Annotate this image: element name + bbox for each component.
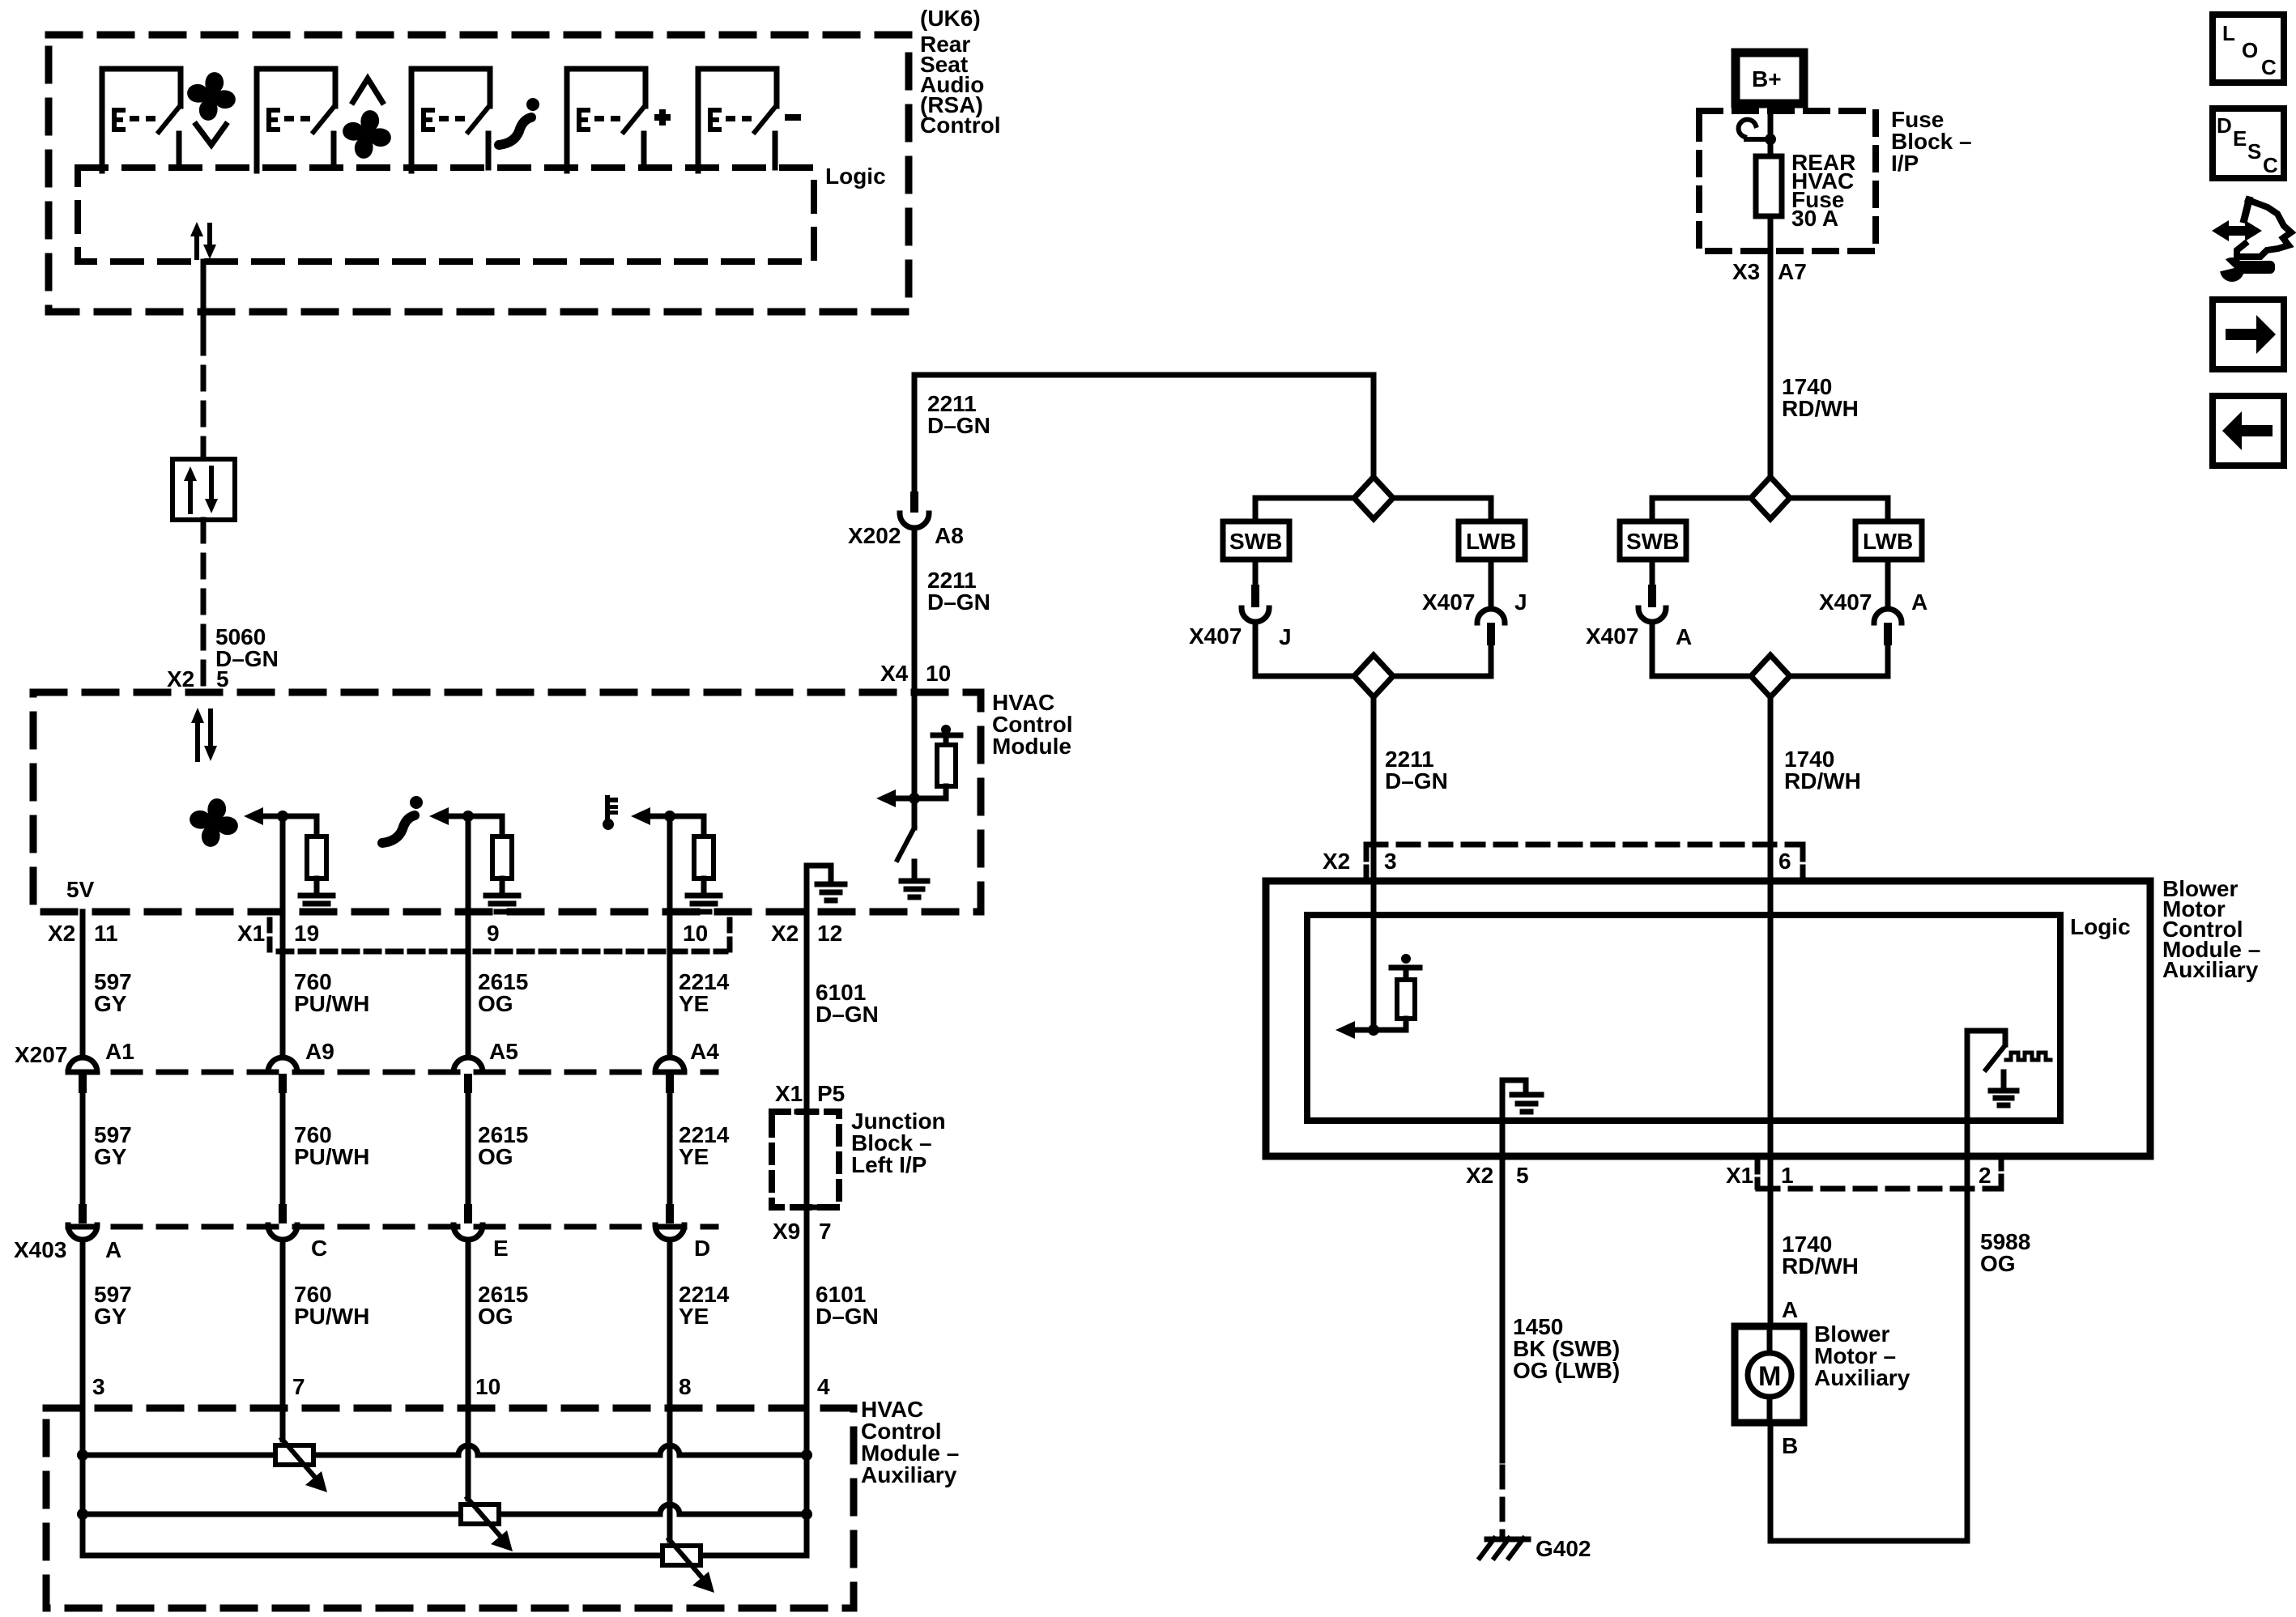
svg-text:B+: B+ — [1752, 66, 1782, 91]
X407 J labels (LWB 2211) — [1422, 589, 1527, 615]
svg-text:8: 8 — [679, 1374, 692, 1399]
junction block crossbar bottom — [797, 1205, 816, 1211]
connector X2 pin 5 — [167, 666, 229, 691]
svg-text:PU/WH: PU/WH — [294, 1144, 369, 1169]
wire labels 2214 YE set 1 — [679, 969, 730, 1016]
Logic dashed box inside RSA — [78, 168, 814, 262]
svg-text:C: C — [2261, 55, 2277, 79]
fan icon high-speed with up chevron — [351, 79, 384, 104]
logic ground (blower) — [1502, 1080, 1541, 1156]
svg-text:PU/WH: PU/WH — [294, 1304, 369, 1329]
svg-text:E: E — [493, 1236, 509, 1261]
resistor branch R-temp — [631, 807, 720, 912]
X407 A labels (LWB 1740) — [1819, 589, 1928, 615]
arrow to logic (blower) — [1355, 1028, 1374, 1033]
svg-text:10: 10 — [683, 921, 708, 946]
wire 2211 into logic — [1371, 881, 1377, 1030]
svg-text:30 A: 30 A — [1791, 206, 1838, 231]
wire labels 597 GY set 3 — [94, 1282, 132, 1329]
svg-text:L: L — [2222, 21, 2235, 45]
wire 6101 D-GN below pin X2-12 — [804, 912, 810, 1112]
label 1450 BK/OG — [1513, 1314, 1620, 1383]
X407 terminal A (LWB 1740) — [1874, 560, 1902, 645]
fuse clip hook — [1739, 120, 1776, 145]
junction dots bus line 1 — [77, 1449, 88, 1461]
svg-text:RD/WH: RD/WH — [1782, 1253, 1859, 1279]
svg-text:Left I/P: Left I/P — [851, 1152, 926, 1177]
wire labels 760 PU/WH set 3 — [294, 1282, 369, 1329]
svg-text:Module: Module — [992, 734, 1071, 759]
svg-text:PU/WH: PU/WH — [294, 991, 369, 1016]
wire 760 PU/WH from fan branch — [280, 816, 286, 1057]
X2-5 pin labels — [1466, 1163, 1529, 1188]
sidebar LOC button — [2213, 15, 2284, 83]
REAR HVAC Fuse 30A element — [1756, 156, 1782, 216]
wire 2211 inside HVAC module — [912, 692, 918, 828]
connector bracket after pin 10 — [727, 920, 733, 957]
seat icon (HVAC) — [382, 796, 423, 843]
svg-text:4: 4 — [817, 1374, 830, 1399]
wire labels 760 PU/WH set 2 — [294, 1122, 369, 1169]
svg-text:X2: X2 — [48, 921, 75, 946]
plus sign — [654, 109, 671, 126]
svg-text:D–GN: D–GN — [816, 1304, 879, 1329]
junction dots bus line 2 — [77, 1508, 88, 1520]
minus sign — [785, 114, 801, 121]
wire 2211 D-GN lower vertical — [912, 528, 918, 692]
bracket pin 2 — [1999, 1158, 2004, 1184]
LWB option box (2211) — [1459, 521, 1525, 560]
svg-text:A8: A8 — [935, 523, 964, 548]
X407 terminal A (SWB 1740) — [1638, 560, 1666, 622]
SWB branch lower wire (1740) — [1652, 622, 1751, 676]
svg-text:X9: X9 — [773, 1219, 800, 1244]
wire 2615 segment 2 — [466, 1093, 471, 1204]
X1 pin labels 1 and 2 — [1726, 1163, 1991, 1188]
wire 1450 solid segment — [1500, 1156, 1506, 1461]
wire 2211 upper vertical — [912, 375, 918, 491]
svg-text:7: 7 — [819, 1219, 832, 1244]
svg-text:P5: P5 — [817, 1081, 845, 1106]
svg-text:OG (LWB): OG (LWB) — [1513, 1358, 1620, 1383]
label 2211 D-GN lower — [927, 568, 990, 615]
label 2211 D-GN upper — [927, 391, 990, 438]
wire 2615 segment 3 — [466, 1240, 471, 1499]
svg-text:D–GN: D–GN — [816, 1002, 879, 1027]
resistor branch R-seat — [429, 807, 518, 912]
wire 1740 to motor — [1768, 1156, 1774, 1354]
bus line 1 with hops — [83, 1445, 807, 1455]
svg-text:12: 12 — [817, 921, 842, 946]
svg-text:GY: GY — [94, 1304, 127, 1329]
wire labels 597 GY set 2 — [94, 1122, 132, 1169]
svg-text:2: 2 — [1979, 1163, 1991, 1188]
junction dot on 2211 — [909, 793, 920, 804]
pullup resistor on 2211 — [914, 725, 961, 798]
resistor branch R-fan — [244, 807, 333, 912]
svg-text:X207: X207 — [15, 1042, 67, 1067]
svg-text:LWB: LWB — [1466, 529, 1516, 554]
RSA control labels — [920, 6, 1001, 138]
junction dot (blower logic) — [1368, 1024, 1379, 1036]
switch blade on 2211 — [897, 828, 914, 860]
X407 A labels (SWB 1740) — [1586, 623, 1692, 649]
X403 label — [14, 1236, 710, 1262]
svg-text:Auxiliary: Auxiliary — [1814, 1365, 1910, 1390]
thermometer icon — [603, 798, 618, 830]
svg-text:X407: X407 — [1586, 623, 1638, 649]
svg-text:D–GN: D–GN — [927, 413, 990, 438]
svg-text:3: 3 — [92, 1374, 105, 1399]
splice diamond D1 (1740) — [1751, 477, 1790, 519]
junction block X1-P5 labels — [775, 1081, 845, 1106]
svg-text:GY: GY — [94, 1144, 127, 1169]
X403 terminal A — [68, 1204, 97, 1240]
label 5060 D-GN — [215, 624, 279, 671]
LWB branch wire (2211) — [1393, 498, 1491, 521]
aux module pin labels 3 7 10 8 4 — [92, 1374, 830, 1399]
wire fuse to X3 — [1768, 216, 1774, 477]
svg-text:LWB: LWB — [1863, 529, 1913, 554]
svg-text:I/P: I/P — [1891, 151, 1919, 176]
svg-text:M: M — [1758, 1361, 1781, 1392]
wire 1740 RD/WH to blower module — [1768, 697, 1774, 881]
up-down arrow box (serial data symbol) — [173, 459, 235, 520]
connector X207 dashed line — [68, 1070, 716, 1075]
svg-text:Logic: Logic — [2070, 914, 2131, 939]
wire 597 GY pin X2-11 — [80, 912, 86, 1057]
svg-text:J: J — [1279, 624, 1292, 649]
svg-text:A: A — [1676, 624, 1692, 649]
ground hook to pin X2-12 — [807, 866, 845, 912]
svg-text:1: 1 — [1781, 1163, 1794, 1188]
dashed data wire below RSA — [201, 332, 207, 459]
wire from Logic to RSA edge — [201, 262, 207, 332]
svg-text:X2: X2 — [771, 921, 799, 946]
SWB option box (2211) — [1223, 521, 1289, 560]
Fuse Block labels — [1891, 107, 1972, 176]
svg-text:Auxiliary: Auxiliary — [2162, 957, 2259, 982]
wire labels 6101 D-GN set 3 — [816, 1282, 879, 1329]
wire labels 6101 D-GN set 1 — [816, 980, 879, 1027]
wire 2211 to splice diamond — [1371, 375, 1377, 477]
wire labels 2615 OG set 1 — [478, 969, 528, 1016]
svg-text:Control: Control — [920, 113, 1001, 138]
svg-text:5: 5 — [1516, 1163, 1529, 1188]
PWM switch ground — [1991, 1072, 2017, 1105]
connector bracket X1 — [267, 920, 273, 957]
Junction Block - Left I/P dashed box — [772, 1112, 839, 1207]
svg-text:OG: OG — [478, 1144, 513, 1169]
splice diamond D1 (2211) — [1354, 477, 1393, 519]
svg-text:YE: YE — [679, 1144, 709, 1169]
svg-text:B: B — [1782, 1433, 1798, 1458]
up-down arrows inside HVAC module — [191, 708, 217, 761]
svg-text:X1: X1 — [775, 1081, 803, 1106]
pullup resistor (blower logic) — [1374, 954, 1420, 1030]
svg-text:O: O — [2242, 38, 2258, 62]
wire 1450 dashed segment — [1500, 1467, 1506, 1537]
SWB branch wire (2211) — [1255, 498, 1354, 521]
svg-text:Auxiliary: Auxiliary — [861, 1462, 957, 1487]
fan icon low-speed with down chevron — [187, 72, 236, 121]
connector X2 row dashed tie (pins 3 and 6) — [1366, 842, 1803, 848]
svg-text:OG: OG — [1980, 1251, 2016, 1276]
wire labels 2214 YE set 3 — [679, 1282, 730, 1329]
sidebar next button — [2213, 300, 2284, 369]
X2 3 6 labels — [1323, 849, 1791, 874]
svg-text:D–GN: D–GN — [1385, 768, 1448, 794]
X407 terminal J (LWB 2211) — [1477, 560, 1505, 645]
wire labels 760 PU/WH set 1 — [294, 969, 369, 1016]
svg-text:A9: A9 — [305, 1039, 334, 1064]
svg-text:X407: X407 — [1422, 589, 1475, 615]
Fuse Block I/P dashed box — [1699, 111, 1876, 251]
svg-text:S: S — [2247, 139, 2261, 164]
variable resistor R2 on bus 2 — [461, 1498, 513, 1551]
wire labels 2214 YE set 2 — [679, 1122, 730, 1169]
HVAC Control Module - Auxiliary dashed box — [46, 1408, 854, 1608]
X207 terminal A4 — [655, 1057, 684, 1093]
LWB branch wire (1740) — [1790, 498, 1888, 521]
wire 760 segment 2 — [280, 1093, 286, 1204]
X403 terminal D — [655, 1204, 684, 1240]
svg-text:X407: X407 — [1189, 623, 1242, 649]
B+ power feed box — [1736, 53, 1804, 104]
svg-text:X2: X2 — [1466, 1163, 1493, 1188]
sidebar DESC button — [2213, 109, 2284, 178]
label 1740 RD/WH second — [1784, 747, 1861, 794]
svg-text:19: 19 — [294, 921, 319, 946]
svg-text:A7: A7 — [1778, 259, 1807, 284]
X207 terminal A1 — [68, 1057, 97, 1093]
svg-text:7: 7 — [292, 1374, 305, 1399]
merge diamond D2 (1740) — [1751, 655, 1790, 697]
svg-text:D: D — [2217, 113, 2232, 138]
merge diamond D2 (2211) — [1354, 655, 1393, 697]
svg-text:A4: A4 — [690, 1039, 719, 1064]
Rear Seat Audio (RSA) Control module dashed box — [49, 35, 909, 312]
wire 2211 D-GN to blower module — [1371, 697, 1377, 881]
wire 2214 segment 3 — [667, 1240, 673, 1540]
svg-text:J: J — [1514, 589, 1527, 615]
Junction Block labels — [851, 1108, 946, 1177]
X3 A7 labels — [1732, 259, 1807, 284]
Blower Motor - Auxiliary box — [1735, 1326, 1804, 1423]
switch S3 seat — [411, 69, 490, 171]
svg-text:X2: X2 — [167, 666, 194, 691]
motor return wire to pin 2 — [1770, 1156, 1967, 1541]
wire 760 segment 3 — [280, 1240, 286, 1440]
svg-text:RD/WH: RD/WH — [1784, 768, 1861, 794]
svg-text:D–GN: D–GN — [927, 589, 990, 615]
svg-text:RD/WH: RD/WH — [1782, 396, 1859, 421]
svg-text:X202: X202 — [848, 523, 901, 548]
X202 A8 labels — [848, 523, 964, 548]
seat icon — [499, 98, 539, 145]
sidebar vehicle-wrench icon — [2212, 200, 2291, 282]
svg-text:SWB: SWB — [1229, 529, 1282, 554]
wire labels 2615 OG set 3 — [478, 1282, 528, 1329]
wire 2214 YE from temp branch — [667, 816, 673, 1057]
wire 1740 through module — [1768, 881, 1774, 1156]
X403 terminal C — [268, 1204, 297, 1240]
svg-text:YE: YE — [679, 1304, 709, 1329]
bracket X2 pin 3 — [1364, 849, 1370, 878]
label 5988 OG — [1980, 1229, 2030, 1276]
switch S4 plus — [567, 69, 645, 171]
fuse labels — [1791, 150, 1855, 231]
switch S2 fan-up — [257, 69, 335, 171]
svg-text:G402: G402 — [1536, 1536, 1591, 1561]
X207 terminal A5 — [454, 1057, 483, 1093]
X207 terminal A9 — [268, 1057, 297, 1093]
svg-text:A5: A5 — [489, 1039, 518, 1064]
svg-text:A: A — [1782, 1297, 1798, 1322]
wire 597 GY segment 2 — [80, 1093, 86, 1204]
variable resistor R1 on bus 1 — [275, 1439, 327, 1492]
HVAC Control Module labels — [992, 690, 1073, 759]
Logic box inside blower module — [1307, 915, 2060, 1121]
X1 connector dashed tie line — [279, 949, 726, 955]
svg-text:YE: YE — [679, 991, 709, 1016]
svg-text:X407: X407 — [1819, 589, 1872, 615]
svg-text:(UK6): (UK6) — [920, 6, 981, 31]
LWB branch lower wire (1740) — [1790, 645, 1888, 676]
svg-text:10: 10 — [926, 661, 951, 686]
switch S1 fan-down — [102, 69, 181, 171]
HVAC Control Module dashed box — [33, 692, 981, 912]
svg-text:X2: X2 — [1323, 849, 1350, 874]
svg-text:6: 6 — [1778, 849, 1791, 874]
svg-text:10: 10 — [475, 1374, 501, 1399]
svg-text:E: E — [2233, 126, 2247, 151]
Blower Motor Control Module box — [1266, 881, 2150, 1156]
arrow to logic (2211 sense) — [896, 796, 914, 802]
switch S5 minus — [698, 69, 777, 171]
svg-text:5V: 5V — [66, 877, 95, 902]
bracket X1 — [1755, 1161, 1761, 1187]
svg-text:D: D — [694, 1236, 710, 1261]
svg-text:Logic: Logic — [825, 164, 886, 189]
connector X403 dashed line — [68, 1224, 716, 1230]
SWB option box (1740) — [1620, 521, 1686, 560]
wire 2211 D-GN horizontal run — [914, 372, 1374, 378]
SWB branch wire (1740) — [1652, 498, 1751, 521]
svg-text:GY: GY — [94, 991, 127, 1016]
junction block X9-7 labels — [773, 1219, 832, 1244]
label 1740 RD/WH upper — [1782, 374, 1859, 421]
wire labels 2615 OG set 2 — [478, 1122, 528, 1169]
X207 label — [15, 1039, 719, 1067]
ground G402 — [1480, 1538, 1528, 1558]
svg-text:X1: X1 — [1726, 1163, 1753, 1188]
svg-text:C: C — [311, 1236, 327, 1261]
svg-text:X403: X403 — [14, 1237, 66, 1262]
X407 terminal J (SWB 2211) — [1242, 560, 1269, 622]
svg-text:OG: OG — [478, 1304, 513, 1329]
svg-text:11: 11 — [94, 921, 118, 946]
connector X202 terminal A8 — [900, 491, 929, 528]
svg-text:C: C — [2263, 153, 2278, 177]
PWM switch (blower) — [1967, 1031, 2051, 1156]
pin labels X2-11 X1-19 9 10 X2-12 — [48, 921, 842, 946]
svg-text:5: 5 — [216, 666, 229, 691]
X403 terminal E — [454, 1204, 483, 1240]
X1 connector dashed tie (1 to 2) — [1758, 1186, 2001, 1192]
svg-text:3: 3 — [1384, 849, 1397, 874]
fan icon (blower speed sense) — [190, 798, 238, 847]
label 2211 D-GN third — [1385, 747, 1448, 794]
SWB branch lower wire (2211) — [1255, 622, 1354, 676]
svg-text:X3: X3 — [1732, 259, 1760, 284]
LWB branch lower wire (2211) — [1393, 645, 1491, 676]
wire 2615 OG from seat branch — [466, 816, 471, 1057]
bracket pin 6 — [1800, 849, 1806, 878]
dashed wire 5060 D-GN — [201, 520, 207, 692]
bus line 3 — [83, 1514, 807, 1555]
svg-text:SWB: SWB — [1626, 529, 1679, 554]
wire B+ to fuse — [1768, 104, 1774, 156]
up-down arrows inside Logic — [190, 222, 216, 259]
svg-text:A: A — [1911, 589, 1928, 615]
svg-text:OG: OG — [478, 991, 513, 1016]
wire 2214 segment 2 — [667, 1093, 673, 1204]
variable resistor R3 on bus 3 — [662, 1539, 714, 1593]
HVAC Control Module - Auxiliary labels — [861, 1397, 959, 1487]
LWB option box (1740) — [1855, 521, 1922, 560]
svg-text:A: A — [105, 1237, 121, 1262]
motor M symbol — [1748, 1326, 1791, 1423]
wire 6101 D-GN segment 2 — [804, 1112, 810, 1555]
label 1740 RD/WH third — [1782, 1232, 1859, 1279]
bus line 2 with hop — [83, 1504, 807, 1514]
X4 pin 10 labels — [880, 661, 951, 686]
junction block crossbar top — [797, 1109, 816, 1115]
svg-text:X1: X1 — [237, 921, 265, 946]
svg-text:A1: A1 — [105, 1039, 134, 1064]
ground for 2211 switch — [901, 862, 927, 897]
Blower Motor Control Module labels — [2162, 876, 2260, 982]
Blower Motor labels — [1814, 1321, 1910, 1390]
X407 J labels (SWB 2211) — [1189, 623, 1292, 649]
svg-text:X4: X4 — [880, 661, 909, 686]
svg-text:9: 9 — [487, 921, 500, 946]
wire 597 GY segment 3 — [80, 1240, 86, 1555]
sidebar back button — [2213, 396, 2284, 466]
wire labels 597 GY set 1 — [94, 969, 132, 1016]
